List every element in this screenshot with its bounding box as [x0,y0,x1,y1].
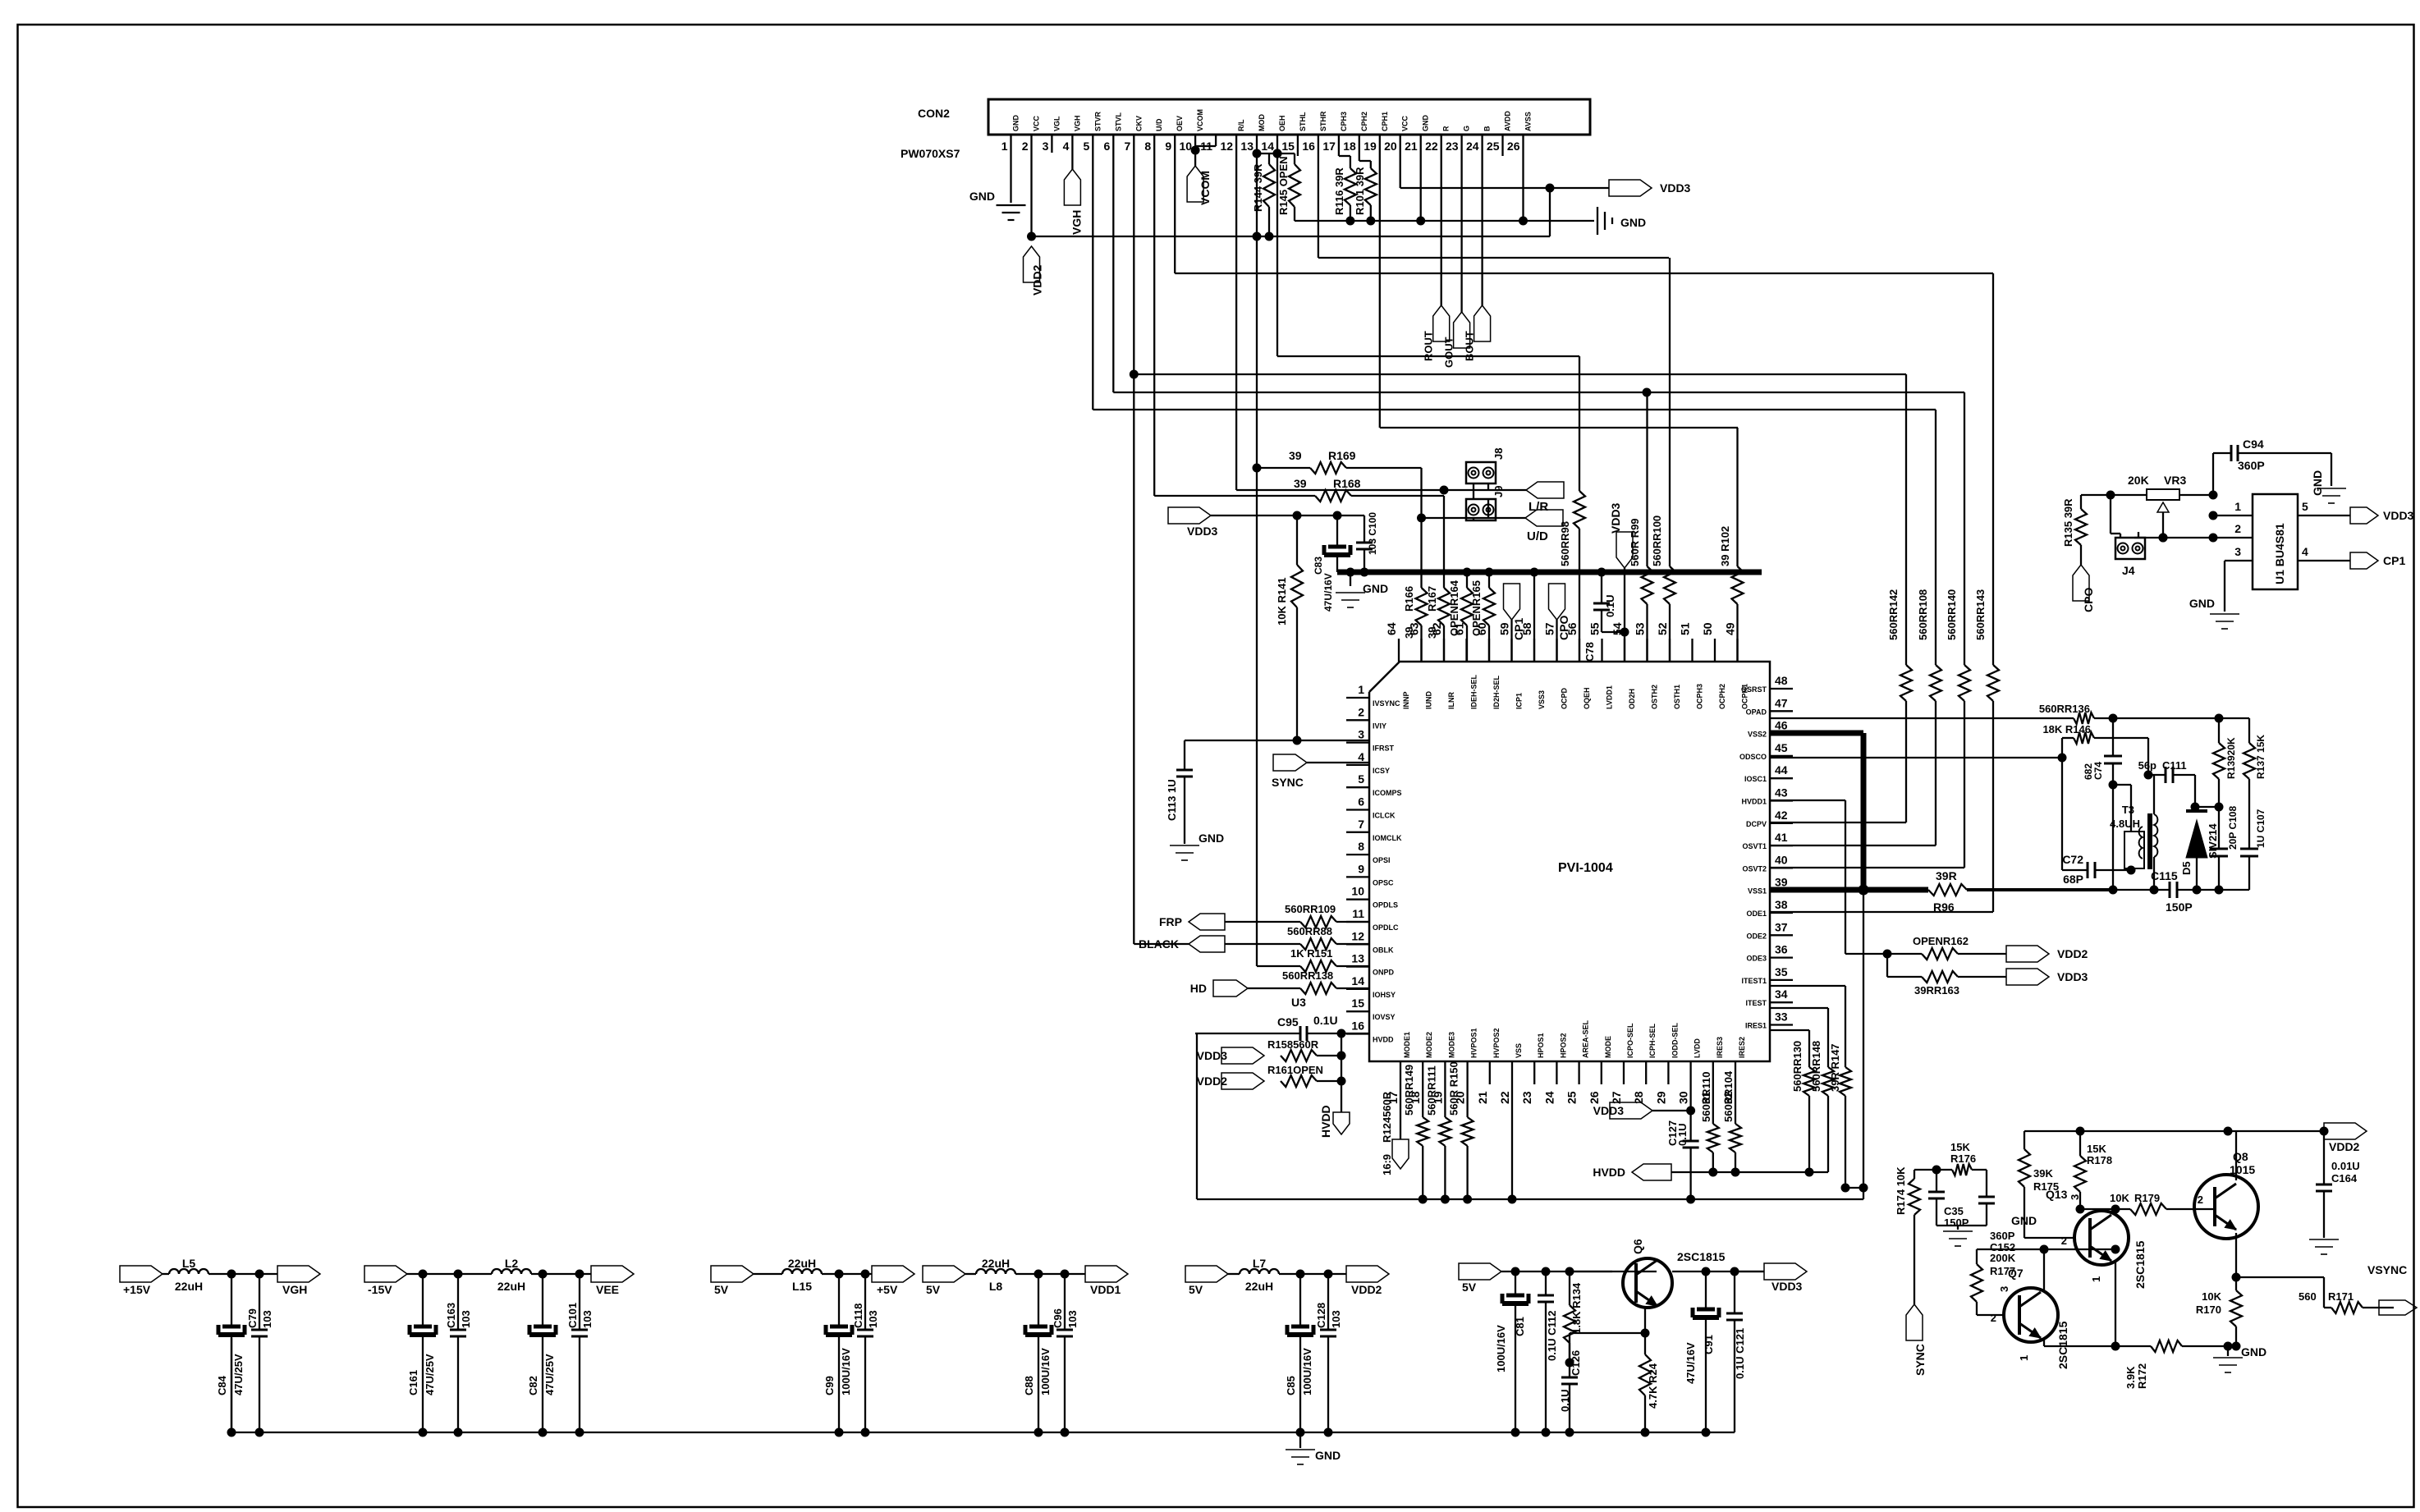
IC pin 10 OPDLS [1346,885,1398,909]
flag HVDD below C95 [1319,1033,1350,1138]
svg-text:R168: R168 [1333,477,1361,490]
svg-text:BLACK: BLACK [1139,937,1179,951]
svg-text:INNP: INNP [1402,691,1410,709]
wire LVDD pin30 [1652,1084,1695,1116]
svg-text:R101 39R: R101 39R [1354,167,1366,215]
svg-text:SYNC: SYNC [1914,1344,1927,1376]
flag SYNC at pin4 [1272,754,1369,789]
flag VDD3 above IC [1168,507,1218,538]
svg-text:VSS3: VSS3 [1538,690,1546,709]
svg-text:ODE1: ODE1 [1746,909,1767,918]
svg-text:OPSC: OPSC [1373,878,1394,887]
svg-text:R135 39R: R135 39R [2062,498,2074,547]
IC pin 30 LVDD [1677,1038,1702,1104]
svg-text:C81: C81 [1514,1317,1526,1336]
svg-text:1K R151: 1K R151 [1290,947,1332,960]
svg-text:4.7K R24: 4.7K R24 [1647,1363,1659,1409]
svg-text:VDD3: VDD3 [1593,1104,1625,1117]
svg-text:VDD3: VDD3 [1660,181,1691,195]
svg-text:L15: L15 [792,1280,812,1293]
node GND bus thick [1337,568,1762,577]
flag VCOM under pin10 [1187,146,1216,206]
IC pin 3 IFRST [1346,728,1395,753]
IC pin 27 ICPO-SEL [1610,1023,1634,1104]
IC pin 50 OCPH2 [1701,622,1726,709]
svg-text:560: 560 [2299,1290,2317,1303]
flag ROUT [1423,305,1450,361]
svg-text:3: 3 [2234,545,2241,558]
flag 5V [1185,1266,1228,1296]
capacitor C127 0.1U [1666,1111,1699,1199]
svg-text:IODD-SEL: IODD-SEL [1671,1022,1679,1058]
resistor R178 15K [2074,1131,2112,1209]
svg-text:HVPOS2: HVPOS2 [1492,1028,1501,1058]
wire VSS3 pin58 [1533,572,1535,662]
svg-text:103: 103 [581,1310,594,1328]
svg-text:1: 1 [2018,1355,2030,1361]
capacitor C118 [852,1270,879,1437]
svg-text:560RR140: 560RR140 [1946,589,1958,640]
resistor R137 15K [2244,718,2266,849]
svg-text:VGH: VGH [282,1283,307,1296]
svg-text:C115: C115 [2151,869,2178,882]
capacitor C78 0.1U [1584,572,1629,662]
IC pin 54 OD2H [1611,622,1636,709]
svg-text:560RR138: 560RR138 [1282,969,1333,982]
wire STVR net [1093,409,1936,410]
svg-text:ITEST1: ITEST1 [1741,977,1767,985]
IC pin 48 OSRST [1741,674,1793,694]
svg-text:IRES3: IRES3 [1716,1037,1724,1058]
svg-text:OEH: OEH [1278,115,1286,131]
svg-text:5: 5 [1084,140,1090,153]
svg-text:FRP: FRP [1159,915,1182,928]
svg-text:VDD3: VDD3 [1187,525,1218,538]
node C35 gnd [1936,1225,1987,1226]
svg-text:Q6: Q6 [1631,1239,1644,1254]
IC pin 45 ODSCO [1739,741,1793,761]
wire 5V line [754,1273,872,1275]
flag VDD2 at Q8 [2324,1123,2367,1153]
svg-text:103: 103 [261,1310,273,1328]
svg-text:IUND: IUND [1425,691,1433,709]
svg-text:61: 61 [1453,622,1466,635]
svg-text:64: 64 [1385,622,1398,635]
svg-text:33: 33 [1775,1010,1788,1024]
svg-text:MOD: MOD [1258,114,1266,131]
wire BLACK net vertical [1133,374,1134,944]
flag VDD2 under pin2 [1024,232,1044,296]
svg-text:C96: C96 [1052,1308,1064,1328]
svg-text:IOMCLK: IOMCLK [1373,834,1402,842]
wire CON2 pin 16 [1318,135,1319,258]
wire CON2 pin 5 [1092,135,1093,410]
wire CON2 pin 13 [1256,135,1258,468]
svg-text:J4: J4 [2122,564,2135,577]
inductor L5 22uH [169,1257,209,1293]
svg-text:560RR130: 560RR130 [1791,1041,1804,1092]
svg-text:LVDD1: LVDD1 [1606,685,1614,709]
svg-text:39RR163: 39RR163 [1914,984,1959,997]
svg-text:VDD2: VDD2 [1031,264,1044,296]
IC pin 34 ITEST [1745,987,1793,1007]
transistor Q13 2SC1815 [2046,1188,2147,1289]
svg-text:HD: HD [1190,982,1207,995]
svg-text:GND: GND [1363,582,1388,595]
capacitor C95 0.1U [1195,1014,1369,1041]
svg-text:51: 51 [1679,622,1692,635]
wire CON2 pin 14 [1276,135,1278,356]
flag HVDD rail [1593,1164,1828,1180]
IC pin 7 IOMCLK [1346,818,1402,842]
IC pin 25 AREA-SEL [1565,1019,1590,1104]
svg-text:560RR98: 560RR98 [1559,521,1571,566]
svg-text:VCC: VCC [1033,115,1041,131]
svg-text:HPOS2: HPOS2 [1559,1033,1567,1058]
resistor R96 39R [1928,869,1967,914]
IC pin 49 OCPH1 [1724,622,1749,709]
svg-text:2: 2 [2061,1235,2067,1247]
svg-text:STVL: STVL [1114,112,1122,131]
resistor R102 39 [1719,428,1744,662]
svg-text:R167: R167 [1426,586,1438,612]
flag VGH under pin4 [1064,169,1083,235]
svg-text:ONPD: ONPD [1373,969,1395,977]
svg-text:AREA-SEL: AREA-SEL [1582,1019,1590,1058]
svg-text:OBLK: OBLK [1373,946,1394,954]
ground at C113 [1170,832,1224,860]
svg-text:D5: D5 [2180,861,2193,875]
svg-text:IOSC1: IOSC1 [1744,775,1767,783]
wire U/D net [1417,514,1525,523]
svg-text:VCOM: VCOM [1196,109,1204,131]
svg-text:STVR: STVR [1093,111,1102,131]
wire OPAD pin47 net [1770,714,2224,723]
capacitor C113 1U [1166,740,1193,844]
resistor R140 560R [1770,392,1970,868]
resistor R110 560R [1700,1072,1719,1177]
svg-text:R179: R179 [2134,1192,2160,1204]
IC pin 41 OSVT1 [1742,831,1793,850]
wire CON2 pin 15 [1297,135,1299,156]
svg-text:L2: L2 [505,1257,519,1270]
svg-text:Q13: Q13 [2046,1188,2068,1201]
svg-text:3.9K: 3.9K [2124,1366,2137,1389]
svg-text:OPAD: OPAD [1746,708,1767,716]
svg-text:AVSS: AVSS [1524,112,1533,131]
node ground bus bottom [231,1338,1735,1432]
svg-text:OEV: OEV [1176,116,1184,131]
svg-text:ODE3: ODE3 [1746,955,1767,963]
svg-text:VSS1: VSS1 [1748,887,1767,896]
svg-text:OPDLC: OPDLC [1373,923,1399,932]
svg-text:62: 62 [1430,622,1443,635]
capacitor C128 [1315,1270,1342,1437]
svg-text:+15V: +15V [123,1283,151,1296]
svg-text:VDD3: VDD3 [1771,1280,1803,1293]
svg-text:C164: C164 [2331,1172,2358,1184]
svg-text:OPENR162: OPENR162 [1913,935,1969,947]
svg-text:C82: C82 [527,1376,539,1395]
resistor R174 10K [1895,1166,1920,1304]
transformer T3 4.8UH [2110,804,2157,869]
capacitor C94 360P [2213,438,2331,495]
resistor R99 560R [1629,392,1653,662]
svg-text:MODE: MODE [1604,1036,1612,1058]
svg-text:48: 48 [1775,674,1788,687]
svg-text:L8: L8 [989,1280,1003,1293]
svg-text:VCOM: VCOM [1199,171,1212,205]
flag +5V [872,1266,914,1296]
svg-text:VDD2: VDD2 [1197,1074,1228,1088]
ground under CON2 pin1 [969,190,1026,220]
flag VDD2 [1346,1266,1389,1296]
svg-text:C94: C94 [2243,438,2264,451]
svg-text:1U C107: 1U C107 [2255,809,2266,848]
svg-text:GND: GND [2241,1345,2266,1359]
svg-text:C118: C118 [852,1304,864,1328]
node 5V line at Q6 [1501,1267,1657,1276]
svg-text:GND: GND [1012,115,1020,132]
IC pin 53 OSTH2 [1634,622,1659,709]
svg-text:16:9: 16:9 [1381,1154,1393,1175]
svg-text:U1 BU4S81: U1 BU4S81 [2273,523,2286,584]
svg-text:C101: C101 [566,1303,579,1328]
svg-text:PW070XS7: PW070XS7 [901,147,960,160]
jumper J4 [2111,495,2145,577]
flag CPO below R135 [2073,565,2095,612]
IC pin 52 OSTH1 [1656,622,1681,709]
svg-text:ILNR: ILNR [1447,692,1455,709]
IC pin 38 ODE1 [1746,898,1793,918]
svg-text:-15V: -15V [368,1283,392,1296]
svg-text:IRES2: IRES2 [1738,1037,1746,1058]
svg-text:360P: 360P [2238,459,2265,472]
resistor R135 39R [2062,495,2087,565]
IC pin 18 MODE2 [1409,1032,1433,1104]
svg-text:20P C108: 20P C108 [2227,806,2239,850]
resistor R145 OPEN [1277,153,1300,221]
flag U/D [1525,510,1563,543]
svg-text:47U/25V: 47U/25V [424,1354,436,1395]
wire CON2 pin 25 [1501,135,1503,156]
svg-text:1.8K R134: 1.8K R134 [1570,1282,1583,1334]
flag VDD3 at pin 54 [1609,502,1633,662]
wire CON2 pin 9 [1174,135,1176,273]
IC pin 26 MODE [1588,1036,1612,1104]
IC pin 8 OPSI [1346,840,1391,864]
IC pin 61 IDEH-SEL [1453,622,1478,709]
wire CON2 pin 4 [1071,135,1073,169]
svg-text:39R: 39R [1936,869,1957,882]
svg-text:560R R150: 560R R150 [1448,1061,1460,1116]
svg-text:ODSCO: ODSCO [1739,753,1767,761]
resistor R150 560R [1448,1061,1474,1199]
resistor R138 560R [1248,969,1369,1009]
wire U1 pin5 [2298,500,2350,515]
wire CKV net [1130,370,1906,379]
capacitor C85 [1285,1270,1313,1437]
resistor OPENR165 [1470,572,1495,662]
svg-text:2SC1815: 2SC1815 [2056,1321,2069,1369]
svg-text:R174 10K: R174 10K [1895,1166,1907,1215]
resistor R149 560R [1403,1065,1428,1199]
svg-text:CPH1: CPH1 [1381,112,1389,131]
ground at bottom bus [1286,1432,1341,1464]
IC pin 36 ODE3 [1746,943,1793,963]
svg-text:15: 15 [1281,140,1295,153]
svg-text:7: 7 [1358,818,1364,831]
svg-text:103: 103 [460,1310,472,1328]
IC pin 39 VSS1 [1748,876,1793,896]
wire CON2 pin 8 [1153,135,1155,496]
capacitor C164 0.01U [2316,1131,2360,1238]
svg-text:100U/16V: 100U/16V [1301,1348,1313,1395]
IC pin 64 INNP [1385,622,1410,709]
IC U? PVI-1004 body [1369,662,1770,1061]
svg-text:OSVT1: OSVT1 [1742,842,1767,850]
IC pin 6 ICLCK [1346,795,1396,820]
svg-text:VGL: VGL [1052,116,1061,131]
node VDD2 top line [2024,1127,2329,1136]
wire 5V line [965,1273,1085,1275]
IC pin 22 VSS [1498,1043,1523,1104]
wire VSYNC branch [2324,1277,2331,1308]
svg-text:STHR: STHR [1319,111,1327,131]
svg-text:3: 3 [1998,1286,2010,1292]
svg-text:ICOMPS: ICOMPS [1373,789,1402,797]
svg-text:CPH2: CPH2 [1360,112,1368,131]
svg-text:19: 19 [1364,140,1377,153]
wire ODSCO down [2061,758,2063,870]
svg-text:VSS2: VSS2 [1748,731,1767,739]
svg-text:13: 13 [1240,140,1254,153]
resistor R146 18K [2042,723,2148,744]
resistor R24 4.7K [1639,1333,1659,1437]
svg-text:C83: C83 [1313,557,1324,575]
ground at C164 [2309,1239,2339,1254]
inductor L2 22uH [492,1257,531,1293]
svg-text:26: 26 [1588,1091,1601,1104]
svg-text:38: 38 [1775,898,1788,911]
svg-text:OPDLS: OPDLS [1373,901,1398,909]
svg-text:SIV214: SIV214 [2207,823,2219,859]
capacitor C79 [246,1270,273,1437]
svg-text:OSVT2: OSVT2 [1742,864,1767,873]
svg-text:16: 16 [1351,1019,1364,1033]
ground at C94 [2311,453,2346,503]
capacitor C121 0.1U [1726,1271,1746,1432]
svg-text:L/R: L/R [1529,500,1548,514]
wire CON2 pin 17 [1338,135,1340,156]
svg-text:22: 22 [1425,140,1438,153]
svg-text:R: R [1442,126,1451,131]
resistor R177 200K [1971,1249,2016,1315]
svg-text:47U/16V: 47U/16V [1322,573,1334,612]
inductor L8 22uH [976,1257,1015,1293]
node VR3 left [2081,491,2147,500]
svg-text:47: 47 [1775,696,1788,709]
svg-text:2: 2 [2198,1194,2203,1206]
resistor R109 560R [1225,903,1369,928]
capacitor C111 56p [2138,759,2195,807]
svg-text:39 R102: 39 R102 [1719,526,1731,566]
IC pin 42 DCPV [1746,809,1793,828]
svg-text:R124560R: R124560R [1381,1091,1393,1143]
IC pin 15 IOVSY [1346,997,1396,1021]
svg-text:VDD3: VDD3 [1197,1049,1228,1062]
node VR3 right [2179,491,2218,500]
ground right of CON2 [1580,207,1646,235]
svg-text:CON2: CON2 [918,107,950,120]
svg-text:57: 57 [1543,622,1556,635]
svg-text:1015: 1015 [2230,1163,2255,1176]
flag VDD3 at R163 [2006,969,2088,985]
capacitor C84 [216,1270,245,1437]
svg-text:4: 4 [1358,750,1364,763]
svg-text:CPH3: CPH3 [1340,112,1348,131]
flag 5V [711,1266,754,1296]
svg-text:2SC1815: 2SC1815 [2134,1240,2147,1289]
svg-text:AVDD: AVDD [1504,111,1512,131]
ground at C35 [1943,1214,2037,1246]
svg-text:560R R99: 560R R99 [1629,518,1641,566]
resistor R108 560R [1770,410,1941,845]
svg-text:R171: R171 [2328,1290,2354,1303]
svg-text:R116 39R: R116 39R [1333,167,1345,215]
svg-text:ID2H-SEL: ID2H-SEL [1492,675,1501,709]
svg-text:560RR109: 560RR109 [1285,903,1336,915]
svg-text:9: 9 [1165,140,1171,153]
svg-text:50: 50 [1701,622,1714,635]
svg-text:30: 30 [1677,1091,1690,1104]
svg-text:12: 12 [1221,140,1234,153]
inductor L15 22uH [782,1257,822,1293]
wire ODSCO pin45 [1770,738,2067,763]
flag HD [1190,980,1248,997]
svg-text:R172: R172 [2136,1363,2148,1389]
flag VDD3 at C127 [1593,1102,1652,1119]
svg-text:103: 103 [1330,1310,1342,1328]
svg-text:0.1U: 0.1U [1604,595,1616,617]
capacitor C161 [407,1270,436,1437]
resistor R100 560R [1651,258,1675,662]
svg-text:2: 2 [1358,705,1364,718]
svg-text:5V: 5V [714,1283,729,1296]
svg-text:VGH: VGH [1070,210,1083,235]
resistor R141 10K [1276,515,1303,740]
svg-text:15K: 15K [1950,1141,1970,1153]
svg-text:103: 103 [1066,1310,1079,1328]
svg-text:VEE: VEE [596,1283,619,1296]
svg-text:IFRST: IFRST [1373,745,1395,753]
svg-text:10K: 10K [2110,1192,2129,1204]
transistor Q7 2SC1815 [1991,1267,2069,1369]
jumper J9 [1466,486,1505,520]
IC pin 46 VSS2 [1748,719,1793,739]
capacitor C91 47U/16V [1684,1271,1719,1437]
svg-text:HVDD1: HVDD1 [1741,798,1767,806]
resistor R104 560R [1722,1070,1741,1176]
wire IFRST pin3 net [1185,736,1369,745]
resistor R169 39 [1257,449,1422,474]
flag VEE [591,1266,634,1296]
ground at R172 [2213,1345,2266,1372]
svg-text:J9: J9 [1492,486,1505,497]
svg-text:37: 37 [1775,920,1788,933]
svg-text:HVDD: HVDD [1593,1166,1625,1179]
svg-text:VDD2: VDD2 [2057,947,2088,960]
